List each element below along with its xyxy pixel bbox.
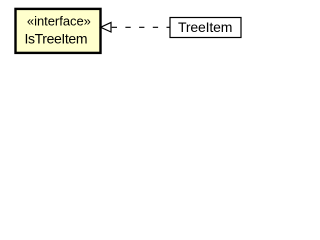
svg-text:IsTreeItem: IsTreeItem — [25, 31, 88, 47]
dashed wire from TreeItem to arrowhead — [112, 26, 170, 28]
class box TreeItem — [170, 18, 241, 38]
background — [0, 0, 256, 61]
svg-text:TreeItem: TreeItem — [178, 19, 233, 35]
svg-text:«interface»: «interface» — [27, 14, 91, 29]
interface box IsTreeItem — [16, 9, 101, 53]
realization arrowhead (hollow triangle) — [101, 23, 111, 33]
